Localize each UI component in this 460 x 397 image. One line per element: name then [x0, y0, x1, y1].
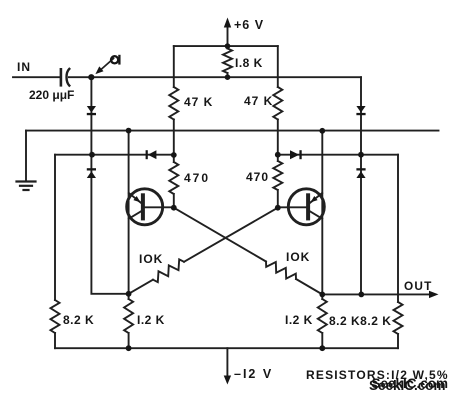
- resistor 1.8K: [223, 46, 232, 77]
- resistor 470 right: [273, 155, 282, 208]
- diode D4 (right-pointing) on right diode line: [290, 150, 302, 159]
- svg-text:8.2 K8.2 K: 8.2 K8.2 K: [329, 314, 391, 328]
- transistor Q2: [278, 189, 325, 225]
- resistor 8.2K left: [51, 300, 60, 333]
- transistor Q1: [127, 189, 174, 225]
- label node a (drawn glyph): [111, 55, 119, 65]
- resistor 8.2K right: [394, 302, 403, 334]
- svg-text:OUT: OUT: [404, 279, 433, 293]
- resistor 1.2K right: [318, 299, 327, 348]
- resistor 470 left: [169, 155, 178, 208]
- svg-text:220 μμF: 220 μμF: [29, 88, 74, 102]
- resistor 47K left: [169, 87, 178, 120]
- resistor 1.2K left: [124, 299, 133, 348]
- svg-text:8.2 K: 8.2 K: [63, 313, 94, 327]
- svg-text:I.8 K: I.8 K: [235, 56, 263, 70]
- svg-text:IOK: IOK: [286, 250, 310, 264]
- wire output line with arrow: [322, 291, 438, 298]
- svg-text:47 K: 47 K: [244, 94, 273, 108]
- wire right 8.2K / OUT column x=398: [397, 155, 399, 349]
- svg-text:47 K: 47 K: [184, 95, 213, 109]
- wire Q1 emitter-collector vertical column x=128.6: [128, 131, 130, 299]
- wire emitter rail y=130: [26, 130, 439, 132]
- svg-text:IOK: IOK: [139, 252, 163, 266]
- wire top rail y=46: [174, 45, 278, 47]
- wire Q2 emitter-collector vertical column x=322.3: [321, 131, 323, 299]
- resistor 10K B cross-coupling (right base to left bottom): [129, 208, 278, 294]
- capacitor C1 220uuF: [61, 69, 69, 86]
- wire IN input line to node a and across to right corner: [13, 76, 361, 78]
- wire diode line right segment y=154.7: [278, 154, 398, 156]
- power -12V branch with arrow: [224, 348, 231, 384]
- wire right 47K column: [277, 46, 279, 155]
- diode D3 (left-pointing) on left diode line: [146, 150, 157, 159]
- svg-text:–I2 V: –I2 V: [234, 367, 273, 381]
- svg-text:I.2 K: I.2 K: [285, 313, 313, 327]
- ground: [17, 182, 36, 191]
- diode D5 (down) on right chain: [356, 106, 365, 115]
- resistor 47K right: [273, 87, 282, 120]
- wire bottom rail: [55, 347, 398, 349]
- svg-text:470: 470: [184, 171, 210, 185]
- diode D6 (up) on right chain: [356, 168, 365, 178]
- wire diode line left segment y=154.7: [55, 154, 174, 156]
- svg-text:SeekIC.com: SeekIC.com: [372, 376, 449, 391]
- wire right diode chain vertical x=361: [360, 77, 362, 294]
- wire left 8.2K column: [54, 155, 56, 349]
- diode D2 (up) on node-a branch: [87, 168, 96, 178]
- arrow pointer to node a: [95, 59, 113, 75]
- wire left 47K column: [173, 46, 175, 155]
- wire ground branch: [25, 131, 27, 181]
- wire node-a vertical branch down to bottom left node: [91, 77, 128, 294]
- svg-text:IN: IN: [17, 60, 31, 74]
- svg-text:I.2 K: I.2 K: [137, 313, 165, 327]
- diode D1 (down) on node-a branch: [87, 106, 96, 115]
- power +6V branch with arrow: [224, 18, 231, 47]
- svg-text:+6 V: +6 V: [234, 18, 264, 32]
- svg-text:470: 470: [246, 170, 269, 184]
- node junction dots: [88, 43, 364, 351]
- resistor 10K A cross-coupling (left base to right bottom): [174, 208, 322, 295]
